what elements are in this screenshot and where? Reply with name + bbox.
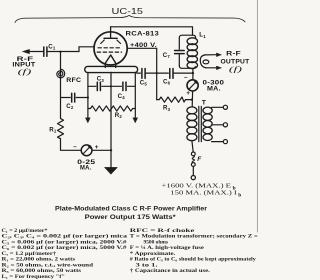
wire center-tap vertical	[110, 72, 112, 167]
svg-text:+: +	[186, 90, 190, 97]
terminal secondary middle	[223, 123, 227, 127]
tube U1 RCA-813 envelope	[94, 32, 127, 65]
wire grid node down to RFC/C2/R1	[60, 52, 62, 119]
svg-text:RCA-813: RCA-813	[126, 30, 160, 37]
wire fuse to B+ terminal	[192, 166, 194, 175]
svg-text:+: +	[95, 144, 99, 151]
wire C1 to grid node	[47, 51, 61, 53]
resistor R2	[88, 106, 135, 111]
wire primary bottom to fuse	[192, 141, 193, 152]
wire screen/filament to C5	[137, 72, 141, 74]
tube filament	[105, 55, 115, 67]
svg-text:MA.: MA.	[80, 165, 91, 172]
capacitor C4	[123, 82, 126, 90]
node filament center junction	[110, 85, 112, 87]
svg-text:–: –	[73, 143, 77, 150]
wire C4 horizontal	[111, 85, 135, 87]
wire secondary tap top	[212, 106, 224, 108]
node +400V junction	[156, 72, 158, 74]
arrow output bottom	[216, 66, 221, 70]
wire output top lead	[205, 54, 217, 56]
wire filament rail right	[134, 73, 136, 118]
wire tank bottom to meter	[192, 68, 194, 80]
tube beam plates	[101, 40, 121, 44]
wire C5 to C6	[145, 72, 168, 74]
arrow output top	[216, 53, 221, 57]
transformer T core	[199, 106, 202, 141]
wire secondary tap bottom	[212, 141, 224, 143]
tube socket	[85, 66, 138, 72]
inductor L1	[187, 38, 197, 69]
wire C2 horizontal	[61, 97, 88, 99]
svg-text:† Capacitance in actual use.: † Capacitance in actual use.	[130, 268, 211, 274]
svg-text:Power Output 175 Watts*: Power Output 175 Watts*	[85, 214, 177, 221]
capacitor C1	[44, 47, 47, 56]
wire R1 bottom to bias meter	[61, 139, 82, 151]
svg-text:–: –	[184, 74, 188, 81]
terminal secondary bottom	[223, 140, 227, 144]
capacitor C5	[142, 69, 145, 79]
tube plate	[104, 37, 117, 39]
wire C6 to plate node	[173, 72, 193, 74]
capacitor C6	[170, 69, 173, 79]
svg-text:UC-15: UC-15	[112, 7, 144, 16]
node tank bottom junction	[192, 72, 194, 74]
meter M1 plate 0-300 MA	[187, 80, 198, 91]
wire screen to +400V dropping line	[127, 48, 157, 99]
wire secondary tap middle	[212, 124, 224, 126]
wire tank top	[179, 35, 195, 38]
wire tank bottom	[179, 66, 195, 69]
node grid junction	[59, 51, 61, 53]
wire R-F input line	[27, 51, 44, 53]
svg-text:+1600 V. (MAX.) E: +1600 V. (MAX.) E	[162, 183, 232, 190]
notes left column	[2, 228, 128, 280]
scan page rule line	[256, 0, 258, 232]
capacitor C3	[97, 82, 100, 90]
svg-text:T: T	[202, 100, 207, 107]
brace UC-15 chassis	[15, 15, 245, 22]
transformer T primary	[187, 107, 197, 141]
coupling link L2	[200, 55, 209, 68]
arrow filament right to supply	[133, 118, 138, 123]
svg-text:+400 V.: +400 V.	[130, 42, 157, 49]
svg-text:(f): (f)	[18, 67, 33, 76]
svg-text:b: b	[238, 193, 241, 199]
svg-text:RFC: RFC	[66, 77, 81, 84]
node R3-meter junction	[191, 99, 193, 101]
meter M2 bias 0-25 MA	[81, 145, 92, 156]
choke RFC	[57, 69, 65, 78]
wire grid node to tube grid	[61, 47, 95, 52]
tube screen grid (dashed)	[98, 47, 121, 49]
terminal +1600V	[191, 176, 195, 180]
wire filament rail left	[87, 73, 89, 118]
terminal secondary top	[223, 105, 227, 109]
svg-text:L₁ = For frequency "f": L₁ = For frequency "f"	[2, 274, 66, 280]
wire output bottom lead	[205, 67, 216, 69]
resistor R3	[157, 97, 192, 102]
wire C3 horizontal	[88, 85, 111, 87]
svg-text:Plate-Modulated Class C R-F Po: Plate-Modulated Class C R-F Power Amplif…	[55, 205, 208, 212]
arrow filament left to supply	[86, 118, 91, 123]
ground chassis arrow	[105, 167, 118, 174]
notes right column	[130, 228, 258, 274]
node center-tap / meter junction	[110, 149, 112, 151]
svg-text:MA.: MA.	[207, 86, 221, 93]
wire meter to transformer	[191, 91, 193, 107]
node C2-rail junction	[87, 96, 89, 98]
capacitor C2	[72, 93, 75, 102]
tube control grid (dashed)	[97, 51, 121, 53]
resistor R1	[58, 119, 64, 139]
wire bias meter to center-tap node	[92, 149, 111, 151]
capacitor C7	[175, 38, 185, 66]
wire plate to tank top	[111, 27, 193, 35]
transformer T secondary	[203, 107, 212, 140]
svg-text:R-F: R-F	[226, 50, 241, 57]
tube plate lead	[110, 27, 112, 39]
fuse F	[191, 152, 195, 166]
R-F input arrow	[23, 49, 30, 53]
svg-text:150 MA. (MAX.) I: 150 MA. (MAX.) I	[170, 190, 237, 197]
svg-text:(f): (f)	[229, 65, 243, 74]
